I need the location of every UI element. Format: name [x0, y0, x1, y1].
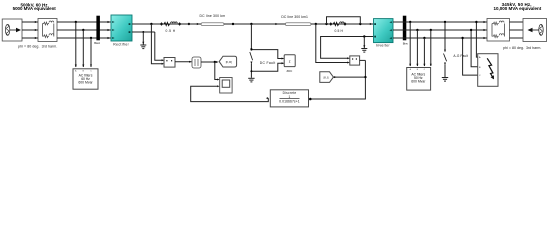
- wire: pill2 to inverter: [311, 23, 374, 25]
- wire: inverter to right network (3 phases): [393, 22, 487, 38]
- wire: measurement to filter blocklet: [175, 61, 192, 63]
- wire: inverter measurement loop into discrete: [311, 60, 365, 99]
- svg-text:600 Mvar: 600 Mvar: [411, 80, 426, 84]
- node: phase C junction to AC filters: [90, 37, 92, 39]
- node: loop left foot: [325, 23, 327, 25]
- svg-text:Binv: Binv: [403, 41, 409, 45]
- wire: fault feeder phase B: [471, 30, 478, 67]
- node: loop right foot: [359, 23, 361, 25]
- svg-text:[K,R]: [K,R]: [226, 60, 232, 64]
- node: dot before pill1: [188, 23, 190, 25]
- node: inverter ground tap: [363, 35, 365, 37]
- DC line 1 pill: [201, 23, 224, 26]
- svg-text:Brect: Brect: [94, 41, 100, 45]
- from tag pentagon [K,I]: [320, 72, 334, 83]
- wire: DC- tap down to voltage measurement: [155, 32, 163, 60]
- svg-text:DC line 300 km: DC line 300 km: [200, 14, 226, 18]
- node: measurement tap on rail: [315, 23, 317, 25]
- wire: to goto tag and scope branch: [201, 61, 217, 63]
- equivalent impedance block right: [487, 19, 510, 42]
- wire: bypass loop over right reactor: [327, 17, 361, 24]
- svg-text:Inverter: Inverter: [376, 44, 390, 48]
- equivalent impedance block left: [38, 19, 57, 42]
- svg-text:0.016667s+1: 0.016667s+1: [279, 100, 300, 104]
- svg-text:phi = 80 deg. 3rd harm.: phi = 80 deg. 3rd harm.: [18, 44, 57, 48]
- discrete transfer function block: [270, 90, 308, 107]
- node: junction at 151: [150, 23, 152, 25]
- converter Inverter: [374, 19, 394, 43]
- wire: rail tap down to cm input 2: [316, 24, 348, 63]
- svg-text:ZDC: ZDC: [287, 69, 293, 73]
- wire: fault feeder phase A: [476, 22, 477, 57]
- node: phase B junction to AC filters: [82, 29, 84, 31]
- AC filters block left: [73, 69, 98, 89]
- svg-text:DC line 300 km1: DC line 300 km1: [281, 15, 308, 19]
- ground: below inverter: [361, 37, 367, 53]
- bus bar Binv: [403, 16, 407, 41]
- node: ground tap: [142, 31, 144, 33]
- svg-text:0.5 H: 0.5 H: [335, 29, 344, 33]
- converter Rectifier: [111, 15, 132, 41]
- wire: fault feeder phase C: [463, 38, 478, 75]
- wire: feedback into scope input 2: [191, 86, 269, 101]
- annotation: 345kV 50Hz title: [494, 2, 542, 11]
- node: branch to scope: [214, 61, 216, 63]
- voltage measurement block VdR: [164, 58, 175, 68]
- svg-text:0.5 H: 0.5 H: [166, 29, 176, 33]
- wire: branch down to scope input 1: [215, 62, 218, 80]
- svg-text:[K,I]: [K,I]: [324, 75, 329, 79]
- ground: below rectifier: [140, 32, 146, 49]
- three-phase source block right: [523, 19, 547, 42]
- goto tag [K,R]: [219, 56, 236, 67]
- wire: impedance to source right: [510, 22, 524, 38]
- smoothing reactor left 0.5H: [164, 22, 177, 26]
- wire: drops to AC filters left: [76, 22, 91, 67]
- node: pill1 output junction: [232, 23, 234, 25]
- svg-text:1: 1: [289, 95, 291, 99]
- scope block: [220, 78, 232, 94]
- wire: DC+ tap down to voltage measurement: [151, 24, 162, 64]
- wire: inverter DC- to cm input 1: [321, 37, 374, 59]
- wire: rail to DC line 1: [161, 23, 202, 25]
- wire: fault bottom tap to ZDC input 2: [251, 63, 283, 71]
- node: fault feeder taps: [475, 21, 477, 23]
- bus bar Brect: [96, 16, 100, 41]
- node: discrete output: [309, 98, 312, 101]
- ground: DC fault: [248, 78, 254, 82]
- current measurement block right: [350, 56, 360, 65]
- wire: rectifier DC- to ground: [132, 31, 155, 33]
- svg-text:z: z: [289, 59, 291, 63]
- svg-text:5000 MVA equivalent: 5000 MVA equivalent: [13, 6, 57, 11]
- node: DC fault tap on rail: [250, 23, 252, 25]
- wire: source to impedance (3 phases): [22, 22, 38, 38]
- svg-text:DC Fault: DC Fault: [260, 61, 275, 65]
- svg-text:A-G Fault: A-G Fault: [453, 54, 468, 58]
- wire: drop from DC rail to fault switch: [250, 24, 252, 50]
- wire: cm block output down: [360, 59, 366, 61]
- DC line 2 pill: [285, 23, 311, 26]
- breaker blade DC fault: [250, 52, 253, 60]
- impedance measurement ZDC: [284, 55, 295, 67]
- svg-text:10,000 MVA equivalent: 10,000 MVA equivalent: [494, 6, 542, 11]
- node: right filter taps: [409, 21, 411, 23]
- svg-text:Rectifier: Rectifier: [113, 43, 129, 47]
- wire: drops to AC filters right: [410, 22, 431, 66]
- svg-text:phi = 80 deg. 3rd harm.: phi = 80 deg. 3rd harm.: [503, 46, 541, 50]
- wire: fault top tap to ZDC input 1: [251, 50, 283, 59]
- wire: pill1 to pill2: [224, 23, 285, 25]
- wire: pentagon to junction: [333, 76, 365, 78]
- wire: DC rail from rectifier: [132, 23, 161, 25]
- wire: impedance to rectifier bus (3 phases): [57, 22, 111, 38]
- svg-text:600 Mvar: 600 Mvar: [78, 81, 93, 85]
- three-phase source block left: [2, 19, 22, 41]
- node: pentagon junction: [364, 76, 366, 78]
- AC filters block right: [407, 68, 431, 91]
- node: fault taps: [250, 49, 252, 51]
- fault block right (lightning): [478, 54, 498, 87]
- A-G fault switch: [444, 21, 446, 23]
- small filter blocklet (striped): [192, 57, 201, 68]
- annotation: 500kV 60Hz title: [13, 2, 57, 11]
- ground: A-G fault: [442, 78, 448, 82]
- smoothing reactor right 0.5H: [333, 22, 344, 26]
- node: phase A junction to AC filters: [75, 21, 77, 23]
